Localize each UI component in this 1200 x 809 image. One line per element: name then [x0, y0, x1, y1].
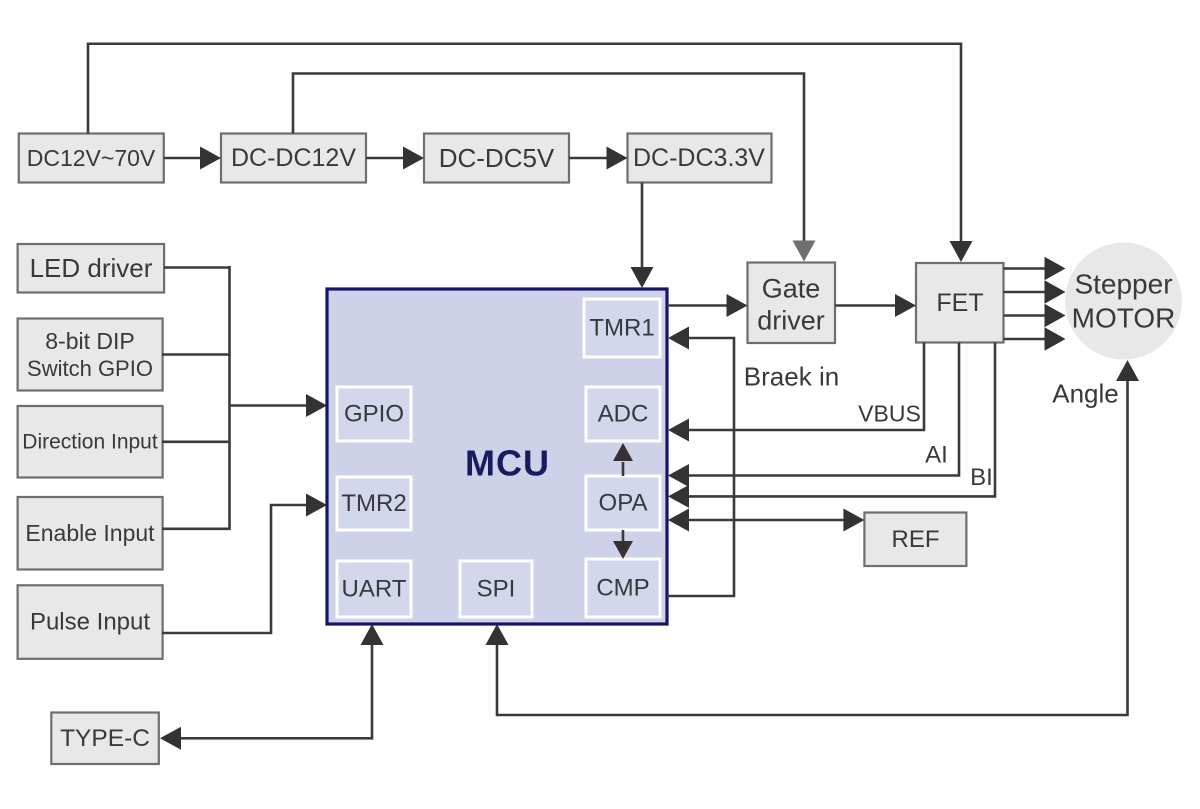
- svg-text:Pulse Input: Pulse Input: [30, 609, 150, 636]
- svg-text:REF: REF: [892, 526, 940, 553]
- svg-text:Angle: Angle: [1052, 379, 1119, 409]
- svg-text:Direction Input: Direction Input: [22, 430, 158, 453]
- svg-text:SPI: SPI: [477, 576, 516, 603]
- svg-text:Gate: Gate: [762, 274, 821, 304]
- svg-text:VBUS: VBUS: [858, 401, 921, 427]
- svg-text:DC12V~70V: DC12V~70V: [27, 145, 156, 171]
- svg-text:BI: BI: [970, 464, 993, 491]
- svg-text:AI: AI: [925, 442, 948, 469]
- svg-text:DC-DC5V: DC-DC5V: [439, 143, 555, 173]
- svg-text:8-bit DIP: 8-bit DIP: [45, 328, 134, 354]
- svg-text:Stepper: Stepper: [1074, 269, 1172, 300]
- svg-text:TYPE-C: TYPE-C: [60, 725, 150, 752]
- svg-text:Enable Input: Enable Input: [25, 520, 155, 546]
- svg-text:TMR2: TMR2: [341, 490, 406, 517]
- svg-text:MOTOR: MOTOR: [1072, 303, 1176, 334]
- svg-text:FET: FET: [936, 289, 983, 317]
- svg-text:TMR1: TMR1: [589, 315, 654, 342]
- svg-text:CMP: CMP: [596, 575, 649, 602]
- svg-text:MCU: MCU: [465, 443, 550, 484]
- svg-text:GPIO: GPIO: [344, 401, 404, 428]
- svg-text:DC-DC3.3V: DC-DC3.3V: [633, 144, 765, 172]
- svg-text:UART: UART: [342, 576, 407, 603]
- svg-text:ADC: ADC: [598, 401, 649, 428]
- svg-text:OPA: OPA: [599, 490, 648, 517]
- svg-text:Braek in: Braek in: [744, 362, 839, 392]
- svg-text:DC-DC12V: DC-DC12V: [231, 144, 356, 172]
- svg-text:LED driver: LED driver: [30, 253, 153, 283]
- svg-text:Switch GPIO: Switch GPIO: [27, 356, 153, 381]
- svg-text:driver: driver: [757, 306, 825, 336]
